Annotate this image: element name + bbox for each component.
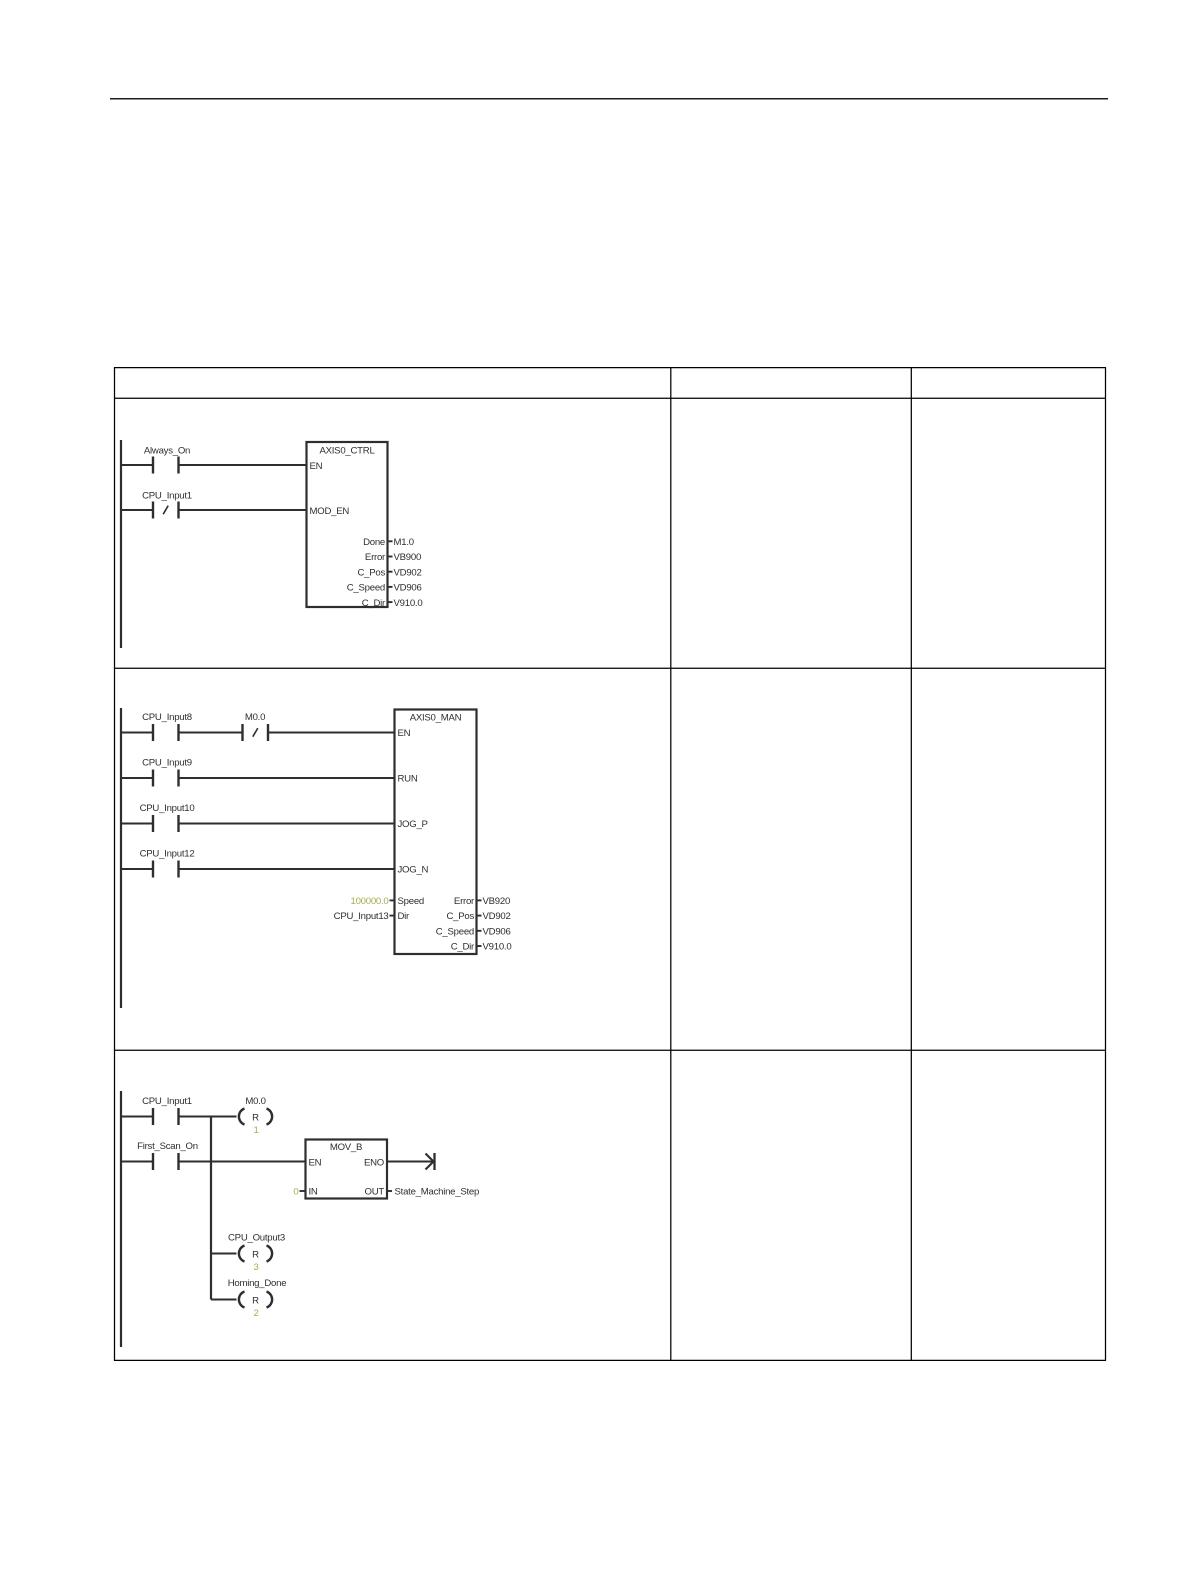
svg-text:M0.0: M0.0: [245, 1096, 265, 1107]
svg-text:CPU_Input12: CPU_Input12: [140, 849, 195, 860]
svg-text:V910.0: V910.0: [483, 942, 512, 953]
svg-text:MOV_B: MOV_B: [330, 1142, 362, 1153]
svg-text:RUN: RUN: [398, 774, 418, 785]
svg-text:0: 0: [293, 1187, 298, 1198]
svg-text:C_Speed: C_Speed: [347, 583, 385, 594]
svg-text:Always_On: Always_On: [144, 446, 190, 457]
svg-text:JOG_P: JOG_P: [398, 819, 428, 830]
svg-text:Error: Error: [454, 896, 475, 907]
svg-text:VD902: VD902: [394, 567, 422, 578]
svg-text:CPU_Input8: CPU_Input8: [142, 712, 192, 723]
svg-text:M0.0: M0.0: [245, 712, 265, 723]
svg-text:IN: IN: [309, 1187, 318, 1198]
svg-text:First_Scan_On: First_Scan_On: [137, 1141, 198, 1152]
svg-text:EN: EN: [309, 1158, 322, 1169]
svg-text:CPU_Input1: CPU_Input1: [142, 1096, 192, 1107]
svg-text:CPU_Output3: CPU_Output3: [228, 1233, 285, 1244]
svg-text:R: R: [252, 1250, 259, 1261]
svg-text:M1.0: M1.0: [394, 537, 414, 548]
svg-text:VB900: VB900: [394, 552, 422, 563]
svg-text:VD906: VD906: [483, 926, 511, 937]
svg-text:CPU_Input13: CPU_Input13: [334, 911, 389, 922]
svg-text:Error: Error: [365, 552, 386, 563]
svg-text:Dir: Dir: [398, 911, 411, 922]
svg-text:AXIS0_CTRL: AXIS0_CTRL: [319, 446, 375, 457]
svg-text:C_Speed: C_Speed: [436, 926, 474, 937]
svg-text:VB920: VB920: [483, 896, 511, 907]
svg-text:CPU_Input1: CPU_Input1: [142, 491, 192, 502]
svg-text:EN: EN: [310, 461, 323, 472]
svg-text:JOG_N: JOG_N: [398, 865, 429, 876]
svg-text:C_Dir: C_Dir: [451, 942, 475, 953]
svg-text:State_Machine_Step: State_Machine_Step: [395, 1187, 480, 1198]
svg-text:VD906: VD906: [394, 583, 422, 594]
svg-text:C_Pos: C_Pos: [446, 911, 474, 922]
svg-text:CPU_Input9: CPU_Input9: [142, 758, 192, 769]
svg-text:OUT: OUT: [364, 1187, 384, 1198]
svg-text:CPU_Input10: CPU_Input10: [140, 803, 195, 814]
svg-text:EN: EN: [398, 728, 411, 739]
svg-text:AXIS0_MAN: AXIS0_MAN: [410, 713, 462, 724]
svg-text:V910.0: V910.0: [394, 598, 423, 609]
svg-text:MOD_EN: MOD_EN: [310, 506, 350, 517]
svg-text:R: R: [252, 1113, 259, 1124]
svg-text:2: 2: [253, 1308, 258, 1319]
svg-text:100000.0: 100000.0: [350, 896, 388, 907]
svg-text:C_Pos: C_Pos: [357, 567, 385, 578]
svg-text:C_Dir: C_Dir: [362, 598, 386, 609]
svg-text:R: R: [252, 1296, 259, 1307]
svg-text:3: 3: [253, 1262, 258, 1273]
svg-text:1: 1: [253, 1125, 258, 1136]
svg-text:Homing_Done: Homing_Done: [228, 1278, 287, 1289]
svg-text:Speed: Speed: [398, 896, 425, 907]
svg-text:ENO: ENO: [364, 1158, 384, 1169]
svg-text:VD902: VD902: [483, 911, 511, 922]
svg-text:Done: Done: [363, 537, 385, 548]
